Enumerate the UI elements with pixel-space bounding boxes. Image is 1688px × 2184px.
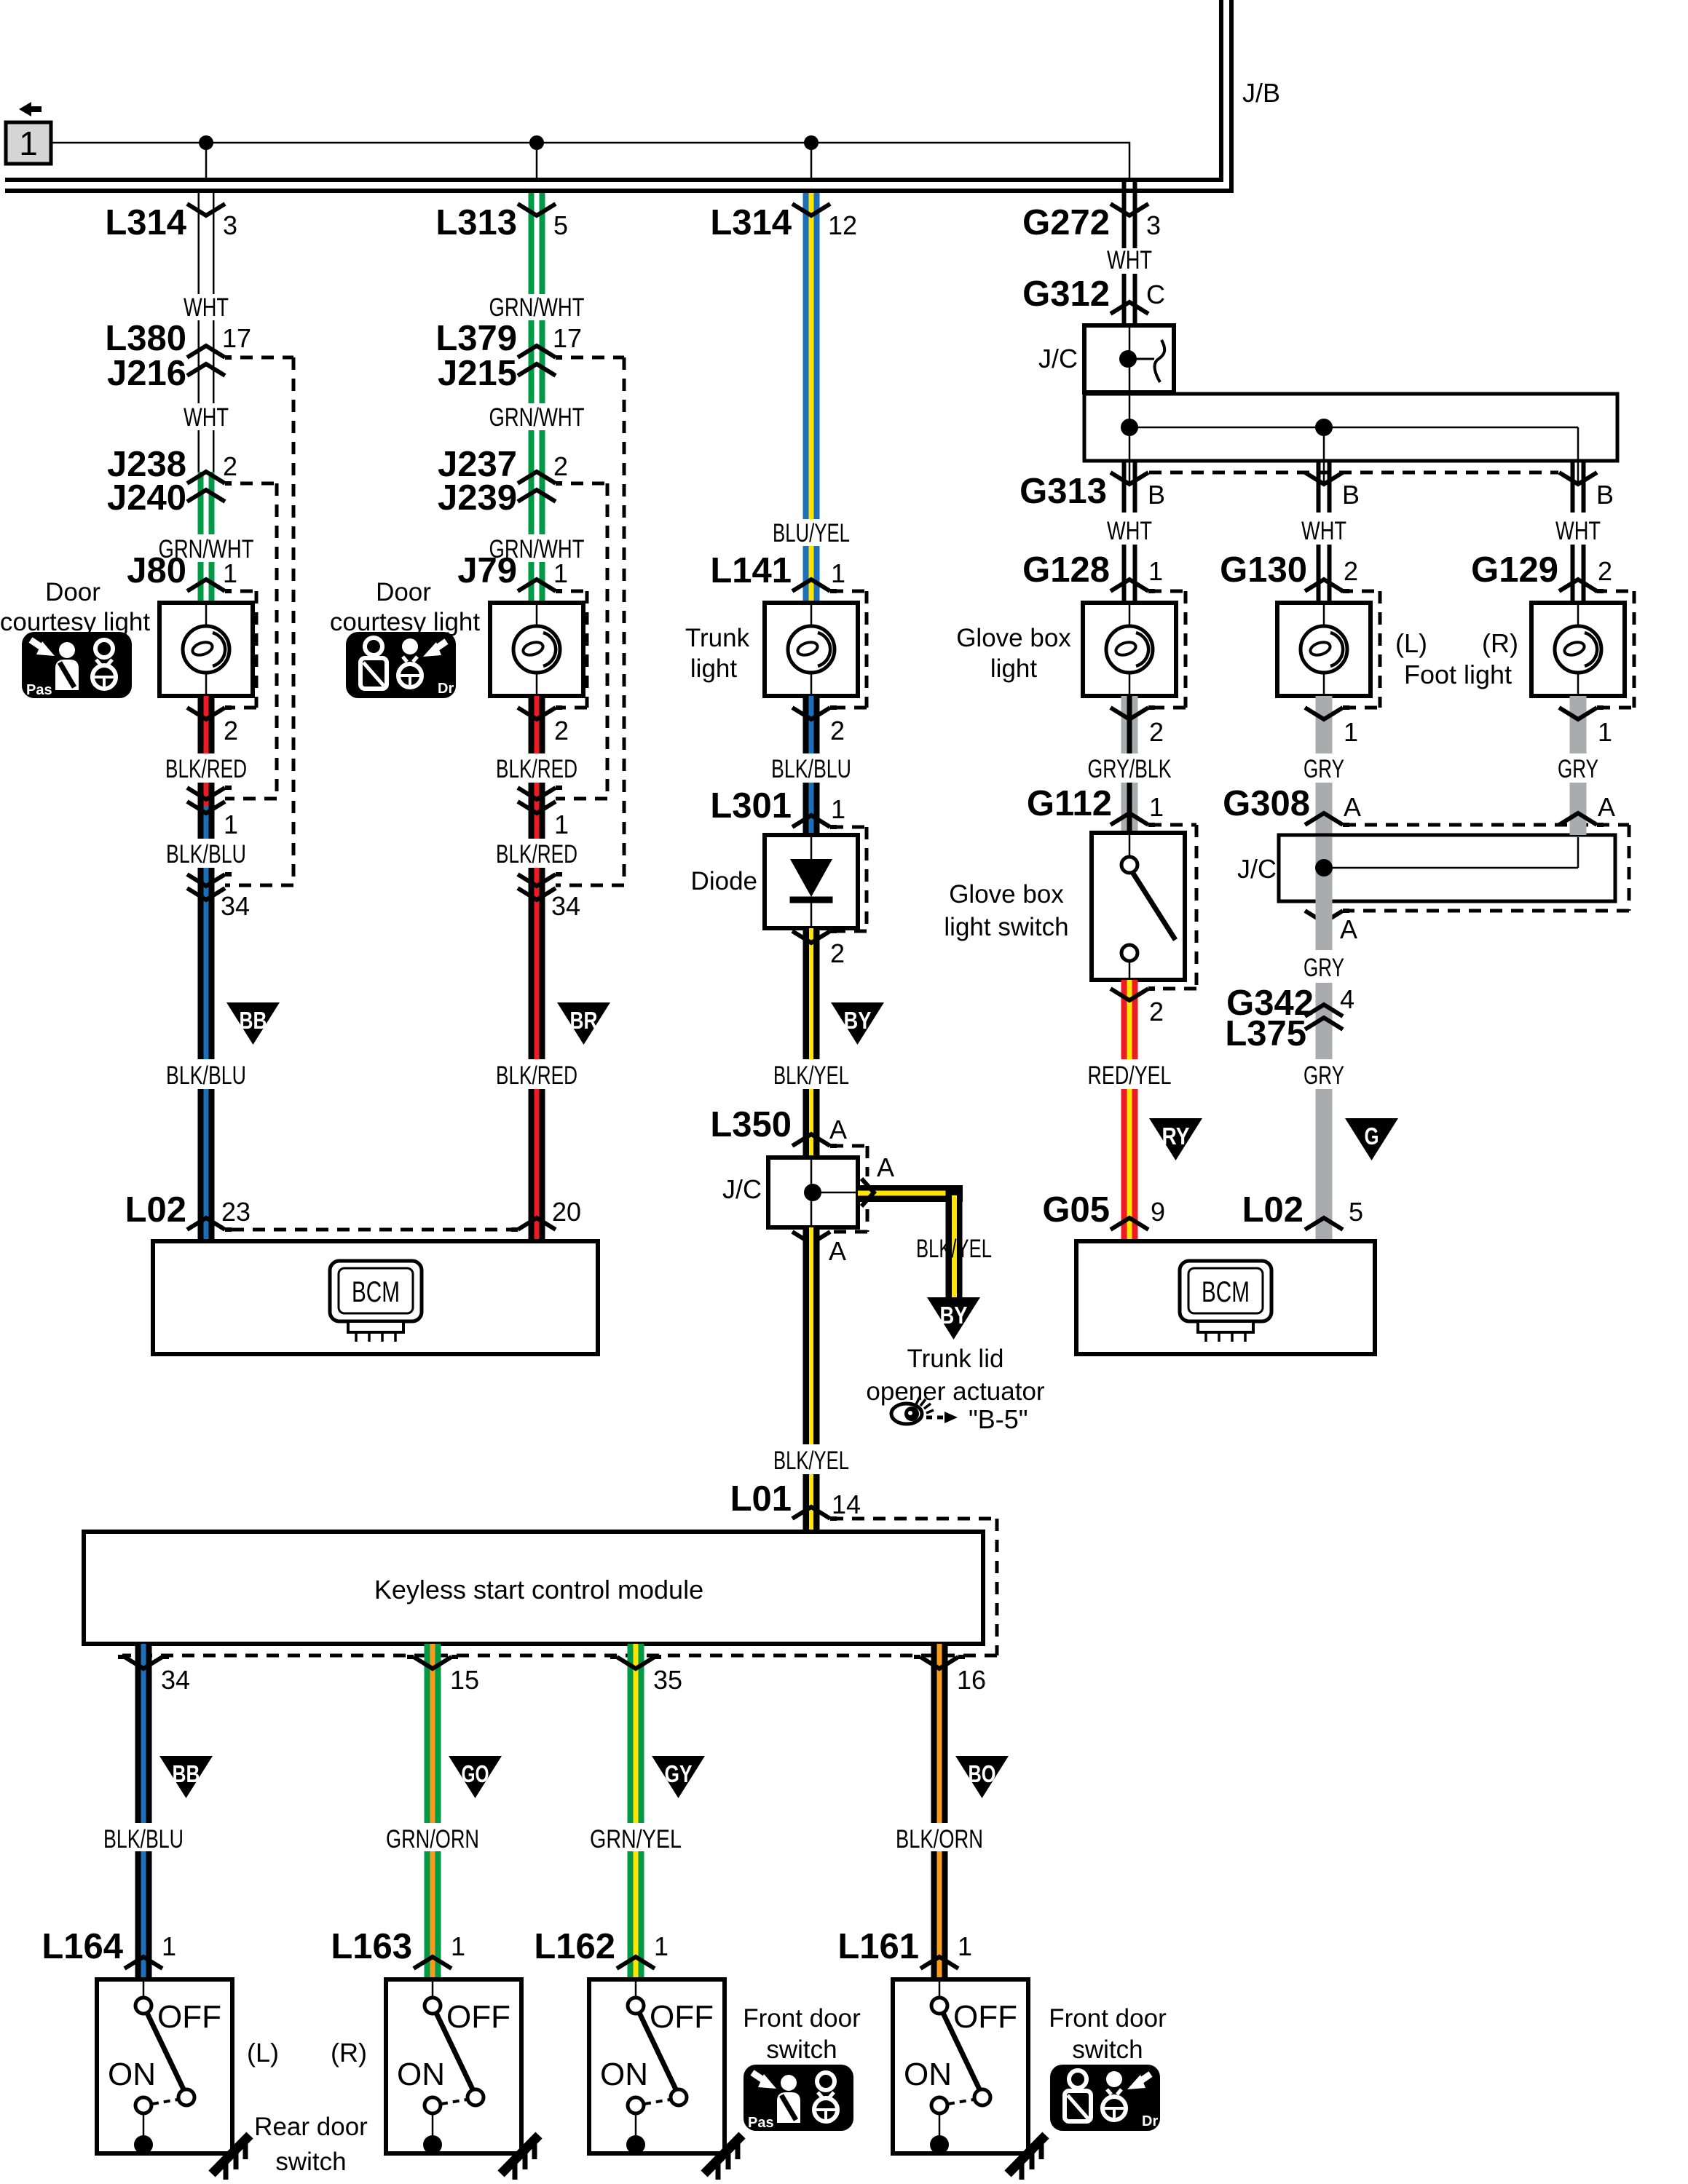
connector L301 pin1 bbox=[792, 815, 837, 827]
junction dot L313-5 tap bbox=[529, 135, 544, 150]
svg-text:G05: G05 bbox=[1042, 1190, 1110, 1230]
door switch L161 box bbox=[893, 1979, 1028, 2154]
tap line L314-3 bbox=[205, 143, 208, 179]
svg-text:34: 34 bbox=[551, 891, 580, 921]
svg-text:BB: BB bbox=[173, 1760, 200, 1787]
svg-text:OFF: OFF bbox=[446, 1999, 510, 2035]
dashed connector outline G128 bbox=[1149, 590, 1186, 593]
marker GY bbox=[652, 1756, 705, 1798]
svg-text:ON: ON bbox=[904, 2057, 952, 2092]
svg-text:1: 1 bbox=[19, 124, 38, 162]
wire WHT below G313 x1551 bbox=[1122, 461, 1127, 513]
tap line L313-5 bbox=[536, 143, 538, 179]
svg-text:Front door: Front door bbox=[743, 2004, 861, 2033]
connector G342/L375 pin4 bbox=[1305, 1005, 1343, 1016]
dashed connector outline J237-J239 col2 bbox=[571, 482, 607, 486]
svg-text:L161: L161 bbox=[837, 1927, 919, 1966]
svg-text:BCM: BCM bbox=[1202, 1276, 1250, 1308]
dashed outline G308 bbox=[1344, 823, 1629, 827]
svg-text:G: G bbox=[1365, 1123, 1379, 1150]
svg-text:1: 1 bbox=[162, 1931, 176, 1961]
eye reference symbol bbox=[891, 1404, 922, 1424]
wire BLK/BLU keyless out bbox=[135, 1644, 141, 1823]
svg-text:15: 15 bbox=[450, 1665, 479, 1695]
svg-text:BLK/YEL: BLK/YEL bbox=[916, 1235, 992, 1263]
dashed connector outline J79 bbox=[571, 590, 587, 593]
marker BB bbox=[159, 1756, 213, 1798]
connector G129 pin2 bbox=[1559, 579, 1604, 591]
svg-text:1: 1 bbox=[223, 558, 237, 588]
svg-text:WHT: WHT bbox=[1555, 517, 1601, 545]
svg-text:BLK/ORN: BLK/ORN bbox=[896, 1825, 983, 1853]
L350 wire through bbox=[811, 1160, 813, 1225]
connector A below L350 bbox=[792, 1232, 830, 1243]
door switch L162 box bbox=[589, 1979, 725, 2154]
svg-text:B: B bbox=[1342, 480, 1360, 510]
dashed link L02 connector bbox=[232, 1228, 511, 1232]
connector G313 pin B x2167 bbox=[1559, 472, 1597, 484]
svg-text:J/C: J/C bbox=[722, 1174, 762, 1204]
svg-text:C: C bbox=[1146, 280, 1165, 309]
wire WHT G272 bbox=[1122, 179, 1127, 248]
junction block G308 J/C box bbox=[1279, 835, 1615, 901]
wire WHT below G313 x2167 bbox=[1571, 461, 1575, 513]
lamp L141 trunk light bbox=[765, 603, 858, 696]
svg-text:1: 1 bbox=[831, 794, 845, 824]
svg-text:5: 5 bbox=[1349, 1197, 1363, 1227]
svg-text:BLK/RED: BLK/RED bbox=[165, 755, 247, 783]
dashed connector outline G130 bbox=[1341, 590, 1380, 593]
svg-text:2: 2 bbox=[1149, 717, 1164, 747]
svg-text:J79: J79 bbox=[457, 551, 517, 590]
wire GRY/BLK col4 bbox=[1121, 696, 1127, 753]
svg-text:L314: L314 bbox=[710, 203, 792, 242]
svg-text:BLK/BLU: BLK/BLU bbox=[771, 755, 851, 783]
G308 internal line bbox=[1324, 867, 1578, 869]
svg-text:1: 1 bbox=[553, 558, 568, 588]
wire GRN/YEL keyless out bbox=[628, 1644, 634, 1823]
connector J80 pin1 bbox=[187, 579, 232, 591]
svg-text:G128: G128 bbox=[1022, 550, 1110, 590]
svg-text:light: light bbox=[990, 654, 1037, 683]
diode L301 box bbox=[765, 835, 858, 928]
G312 jc squiggle bbox=[1128, 358, 1154, 360]
icon front door switch Pas bbox=[744, 2065, 853, 2131]
svg-text:BLK/BLU: BLK/BLU bbox=[166, 840, 246, 869]
G312 junction dot bbox=[1119, 350, 1137, 368]
marker G col5 bbox=[1345, 1118, 1398, 1160]
svg-text:WHT: WHT bbox=[1107, 517, 1152, 545]
svg-text:opener actuator: opener actuator bbox=[866, 1377, 1045, 1406]
svg-text:(R): (R) bbox=[1482, 628, 1518, 658]
marker BY trunk lid opener bbox=[927, 1297, 980, 1340]
svg-text:BY: BY bbox=[844, 1007, 872, 1034]
svg-text:G272: G272 bbox=[1022, 203, 1110, 242]
wire GRN/WHT col1 bbox=[198, 472, 204, 534]
connector pin2 below J79 bbox=[518, 708, 562, 719]
svg-text:switch: switch bbox=[766, 2035, 837, 2064]
marker RY col4 bbox=[1149, 1118, 1202, 1160]
svg-text:G313: G313 bbox=[1019, 472, 1107, 511]
svg-text:BLK/YEL: BLK/YEL bbox=[773, 1061, 849, 1090]
svg-text:L380: L380 bbox=[105, 319, 186, 358]
svg-text:(L): (L) bbox=[247, 2038, 279, 2068]
svg-text:Door: Door bbox=[45, 578, 100, 606]
svg-text:WHT: WHT bbox=[184, 293, 229, 322]
connector L02 pin5 bbox=[1305, 1218, 1343, 1230]
svg-text:2: 2 bbox=[1149, 997, 1164, 1026]
marker BY col3 bbox=[831, 1002, 884, 1045]
keyless start control module box bbox=[84, 1532, 983, 1644]
connector keyless pin 34 bbox=[118, 1657, 169, 1669]
wire WHT col1 bbox=[198, 193, 200, 294]
svg-text:L379: L379 bbox=[435, 319, 517, 358]
svg-text:RED/YEL: RED/YEL bbox=[1088, 1061, 1172, 1090]
tap line L314-12 bbox=[811, 143, 813, 179]
svg-text:light switch: light switch bbox=[944, 913, 1068, 941]
svg-text:L350: L350 bbox=[710, 1105, 792, 1144]
connector J79 pin1 bbox=[518, 579, 562, 591]
svg-text:L375: L375 bbox=[1225, 1014, 1306, 1053]
wire WHT below G313 x1818 bbox=[1317, 461, 1321, 513]
wire GRN/WHT col2 bbox=[529, 193, 535, 294]
connector keyless pin 35 bbox=[610, 1657, 661, 1669]
G308 junction dot bbox=[1315, 859, 1333, 877]
svg-text:34: 34 bbox=[161, 1665, 190, 1695]
svg-text:23: 23 bbox=[221, 1197, 251, 1227]
svg-text:GRY: GRY bbox=[1558, 755, 1598, 783]
svg-text:GO: GO bbox=[462, 1760, 489, 1787]
svg-text:12: 12 bbox=[828, 210, 857, 240]
connector L314-3 bbox=[187, 204, 225, 215]
connector G05 pin9 bbox=[1111, 1218, 1148, 1230]
svg-text:GRY: GRY bbox=[1304, 954, 1344, 982]
svg-text:BLK/RED: BLK/RED bbox=[496, 1061, 577, 1090]
dashed connector outline L301 bbox=[831, 826, 867, 829]
connector L01 pin14 bbox=[792, 1507, 837, 1519]
svg-text:G312: G312 bbox=[1022, 274, 1110, 314]
wire BLK/BLU col1 bbox=[198, 806, 204, 839]
svg-text:Trunk: Trunk bbox=[685, 624, 750, 652]
lamp J79 door courtesy light bbox=[490, 603, 583, 696]
G313 pin line x2167 bbox=[1577, 461, 1579, 483]
svg-text:1: 1 bbox=[451, 1931, 465, 1961]
svg-text:B: B bbox=[1148, 480, 1165, 510]
svg-text:B: B bbox=[1596, 480, 1614, 510]
svg-text:BLK/RED: BLK/RED bbox=[496, 840, 577, 869]
svg-text:GRY: GRY bbox=[1304, 1061, 1344, 1090]
svg-text:BLK/BLU: BLK/BLU bbox=[103, 1825, 184, 1853]
J/B bus inner line bbox=[5, 0, 1231, 191]
svg-text:Glove box: Glove box bbox=[956, 624, 1071, 652]
BCM left icon bbox=[330, 1261, 422, 1342]
connector G313 pin B x1551 bbox=[1111, 472, 1148, 484]
lamp G130 foot light L bbox=[1277, 603, 1370, 696]
svg-text:G129: G129 bbox=[1471, 550, 1558, 590]
connector G312-C bbox=[1111, 302, 1148, 314]
connector G128 pin1 bbox=[1111, 579, 1155, 591]
svg-text:Dr: Dr bbox=[1142, 2113, 1158, 2129]
lamp J80 door courtesy light bbox=[159, 603, 253, 696]
ground at L163 bbox=[501, 2135, 539, 2180]
svg-text:ON: ON bbox=[397, 2057, 445, 2092]
svg-text:switch: switch bbox=[1072, 2035, 1143, 2064]
wire BLK/BLU col3 bbox=[803, 696, 809, 753]
svg-text:2: 2 bbox=[830, 938, 845, 968]
svg-text:4: 4 bbox=[1340, 984, 1354, 1014]
wire GRN/ORN keyless out bbox=[425, 1644, 430, 1823]
connector G308 pin A right bbox=[1559, 813, 1604, 825]
dashed outline keyless L01 bbox=[831, 1517, 997, 1521]
node 1 (page link box) bbox=[6, 122, 51, 164]
inline connector pin1 col2 bbox=[518, 788, 562, 799]
svg-text:RY: RY bbox=[1162, 1123, 1190, 1150]
svg-text:1: 1 bbox=[958, 1931, 972, 1961]
svg-text:Foot light: Foot light bbox=[1404, 660, 1512, 689]
svg-text:2: 2 bbox=[224, 716, 238, 745]
marker BO bbox=[955, 1756, 1009, 1798]
wire BLK/YEL branch vertical bbox=[946, 1185, 963, 1297]
svg-text:BR: BR bbox=[570, 1007, 598, 1034]
svg-text:A: A bbox=[829, 1236, 846, 1266]
connector pin34 col1 bbox=[187, 874, 232, 886]
svg-text:GRN/YEL: GRN/YEL bbox=[590, 1825, 682, 1853]
junction block G313 bus box bbox=[1084, 394, 1617, 461]
connector J238/J240 pin2 bbox=[187, 472, 232, 483]
icon front door switch Dr bbox=[1050, 2065, 1160, 2131]
junction dot L314-3 tap bbox=[199, 135, 213, 150]
L350 junction dot bbox=[804, 1184, 821, 1201]
connector L350 pin A bbox=[792, 1134, 837, 1146]
connector G308 pin A left bbox=[1305, 813, 1349, 825]
svg-text:Glove box: Glove box bbox=[949, 880, 1064, 909]
svg-text:17: 17 bbox=[222, 323, 251, 353]
door switch L164 box bbox=[97, 1979, 232, 2154]
connector pin2 below L301 bbox=[792, 931, 837, 943]
svg-text:A: A bbox=[1344, 792, 1361, 822]
svg-text:J/B: J/B bbox=[1242, 78, 1280, 108]
L350 branch tap line bbox=[811, 1192, 858, 1194]
svg-text:OFF: OFF bbox=[157, 1999, 221, 2035]
dashed connector outline J238-J240 col1 bbox=[240, 482, 277, 486]
svg-text:2: 2 bbox=[554, 716, 569, 745]
svg-text:L164: L164 bbox=[42, 1927, 123, 1966]
svg-text:GRN/WHT: GRN/WHT bbox=[489, 403, 585, 432]
connector pin2 below G112 bbox=[1111, 989, 1155, 1000]
ground at L162 bbox=[704, 2135, 742, 2180]
dashed outline L350 bbox=[831, 1144, 865, 1148]
svg-text:G112: G112 bbox=[1027, 784, 1112, 823]
svg-text:J/C: J/C bbox=[1038, 344, 1078, 373]
svg-text:A: A bbox=[877, 1152, 894, 1182]
svg-text:J216: J216 bbox=[107, 354, 186, 393]
svg-text:5: 5 bbox=[553, 210, 568, 240]
dashed connector outline L141 bbox=[831, 590, 867, 593]
connector pin34 col2 bbox=[518, 874, 562, 886]
svg-text:J239: J239 bbox=[438, 478, 517, 518]
dashed connector outline J80 bbox=[240, 590, 256, 593]
dashed connector outline L379-J215 col2 bbox=[571, 356, 624, 360]
G313 internal line bbox=[1129, 394, 1131, 461]
svg-text:ON: ON bbox=[108, 2057, 156, 2092]
svg-text:GRN/WHT: GRN/WHT bbox=[489, 293, 585, 322]
svg-text:J240: J240 bbox=[107, 478, 186, 518]
G313 internal dot 1 bbox=[1121, 419, 1138, 436]
lamp G129 foot light R bbox=[1531, 603, 1625, 696]
svg-text:Pas: Pas bbox=[748, 2115, 774, 2131]
svg-text:3: 3 bbox=[1146, 210, 1161, 240]
wire from node 1 to J/B drop bbox=[52, 143, 1129, 179]
svg-text:WHT: WHT bbox=[1107, 246, 1152, 274]
wire BLK/RED col1 bbox=[198, 696, 204, 753]
svg-text:L314: L314 bbox=[105, 203, 186, 242]
svg-text:BO: BO bbox=[969, 1760, 996, 1787]
wire BLU/YEL col3 bbox=[803, 193, 809, 519]
marker GO bbox=[449, 1756, 502, 1798]
svg-text:14: 14 bbox=[832, 1489, 861, 1519]
svg-text:OFF: OFF bbox=[953, 1999, 1017, 2035]
svg-text:A: A bbox=[1340, 914, 1357, 944]
svg-text:A: A bbox=[1598, 792, 1615, 822]
junction block G312 J/C box bbox=[1084, 325, 1174, 392]
wire BLK/YEL col3 lower bbox=[803, 1227, 810, 1444]
connector L02 pin20 bbox=[511, 1218, 556, 1230]
svg-text:1: 1 bbox=[554, 810, 569, 839]
svg-text:J215: J215 bbox=[438, 354, 517, 393]
junction dot L314-12 tap bbox=[804, 135, 819, 150]
G313 internal dot 2 bbox=[1315, 419, 1333, 436]
connector G112 pin1 bbox=[1111, 813, 1155, 825]
svg-text:Rear door: Rear door bbox=[254, 2113, 368, 2141]
svg-text:L141: L141 bbox=[710, 551, 792, 590]
svg-text:WHT: WHT bbox=[184, 403, 229, 432]
dashed connector outline G129 bbox=[1595, 590, 1634, 593]
svg-text:G130: G130 bbox=[1220, 550, 1307, 590]
svg-text:L02: L02 bbox=[125, 1190, 186, 1230]
connector 1 link arrow bbox=[29, 106, 42, 112]
marker BR col2 bbox=[557, 1002, 610, 1045]
connector L379/J215 pin17 bbox=[518, 346, 562, 357]
svg-text:BY: BY bbox=[940, 1302, 968, 1329]
connector G313 pin B x1818 bbox=[1305, 472, 1343, 484]
connector L164 pin1 bbox=[125, 1957, 162, 1969]
lamp G128 glove box light bbox=[1083, 603, 1176, 696]
wire GRY col5 lower bbox=[1316, 901, 1333, 950]
svg-text:16: 16 bbox=[957, 1665, 986, 1695]
svg-text:J/C: J/C bbox=[1237, 854, 1277, 884]
connector G272-3 bbox=[1111, 204, 1148, 215]
svg-text:Trunk lid: Trunk lid bbox=[907, 1345, 1004, 1373]
svg-text:L163: L163 bbox=[331, 1927, 412, 1966]
svg-text:(L): (L) bbox=[1395, 628, 1427, 658]
svg-text:2: 2 bbox=[223, 451, 237, 481]
G312 wire through bbox=[1129, 328, 1131, 392]
svg-text:BLK/RED: BLK/RED bbox=[496, 755, 577, 783]
svg-text:1: 1 bbox=[654, 1931, 669, 1961]
door switch L163 box bbox=[386, 1979, 521, 2154]
glove box light switch G112 box bbox=[1092, 833, 1185, 980]
svg-text:Keyless start control module: Keyless start control module bbox=[374, 1575, 703, 1605]
dashed link G313 connector bbox=[1149, 471, 1558, 475]
svg-text:1: 1 bbox=[1598, 717, 1612, 747]
wire BLK/ORN keyless out bbox=[931, 1644, 937, 1823]
wire GRY col5 upper bbox=[1316, 696, 1333, 753]
dashed connector outline L380-J216 col1 bbox=[240, 356, 293, 360]
svg-text:GRN/ORN: GRN/ORN bbox=[386, 1825, 479, 1853]
svg-text:BLK/BLU: BLK/BLU bbox=[166, 1061, 246, 1090]
svg-text:BLK/YEL: BLK/YEL bbox=[773, 1447, 849, 1475]
svg-text:GRY: GRY bbox=[1304, 755, 1344, 783]
wire RED/YEL col4 bbox=[1121, 980, 1127, 1059]
connector J237/J239 pin2 bbox=[518, 472, 562, 483]
svg-text:2: 2 bbox=[830, 716, 845, 745]
svg-text:Diode: Diode bbox=[691, 867, 757, 895]
connector keyless pin 16 bbox=[914, 1657, 965, 1669]
svg-text:34: 34 bbox=[221, 891, 250, 921]
svg-text:ON: ON bbox=[600, 2057, 648, 2092]
svg-text:2: 2 bbox=[553, 451, 568, 481]
svg-text:1: 1 bbox=[1344, 717, 1358, 747]
svg-text:G308: G308 bbox=[1223, 784, 1310, 823]
svg-text:1: 1 bbox=[1148, 556, 1163, 586]
wire BLK/YEL branch horizontal bbox=[858, 1185, 963, 1202]
connector G130 pin2 bbox=[1305, 579, 1349, 591]
G313 pin line x1551 bbox=[1129, 461, 1131, 483]
svg-text:L01: L01 bbox=[730, 1479, 792, 1519]
svg-text:BB: BB bbox=[240, 1007, 267, 1034]
svg-text:OFF: OFF bbox=[650, 1999, 714, 2035]
svg-text:20: 20 bbox=[552, 1197, 581, 1227]
svg-text:1: 1 bbox=[831, 558, 845, 588]
svg-text:GY: GY bbox=[665, 1760, 693, 1787]
svg-text:2: 2 bbox=[1344, 556, 1358, 586]
BCM right icon bbox=[1180, 1261, 1271, 1342]
connector L314-12 bbox=[792, 204, 830, 215]
svg-text:A: A bbox=[829, 1115, 847, 1144]
svg-text:L162: L162 bbox=[534, 1927, 615, 1966]
BCM right box bbox=[1076, 1241, 1375, 1354]
connector pin A below G308 bbox=[1305, 911, 1349, 922]
svg-text:(R): (R) bbox=[331, 2038, 367, 2068]
connector L161 pin1 bbox=[920, 1957, 958, 1969]
connector L380/J216 pin17 bbox=[187, 346, 232, 357]
svg-text:3: 3 bbox=[223, 210, 237, 240]
svg-text:2: 2 bbox=[1598, 556, 1612, 586]
connector pin2 below G128 bbox=[1111, 708, 1155, 719]
connector L313-5 bbox=[518, 204, 556, 215]
svg-text:Door: Door bbox=[376, 578, 431, 606]
svg-text:17: 17 bbox=[553, 323, 582, 353]
connector A on branch bbox=[861, 1179, 874, 1206]
svg-text:1: 1 bbox=[224, 810, 238, 839]
connector keyless pin 15 bbox=[407, 1657, 458, 1669]
BCM left box bbox=[153, 1241, 598, 1354]
svg-text:light: light bbox=[690, 654, 737, 683]
J/B bus outer line bbox=[5, 0, 1221, 180]
connector L162 pin1 bbox=[617, 1957, 655, 1969]
svg-text:GRY/BLK: GRY/BLK bbox=[1088, 755, 1172, 783]
G112 switch contacts bbox=[1121, 857, 1137, 873]
connector L163 pin1 bbox=[414, 1957, 451, 1969]
svg-text:Front door: Front door bbox=[1049, 2004, 1167, 2033]
svg-text:J80: J80 bbox=[127, 551, 186, 590]
svg-text:switch: switch bbox=[275, 2148, 346, 2176]
svg-text:35: 35 bbox=[653, 1665, 682, 1695]
junction block L350 J/C box bbox=[768, 1158, 858, 1227]
svg-text:WHT: WHT bbox=[1301, 517, 1346, 545]
svg-text:"B-5": "B-5" bbox=[969, 1404, 1028, 1434]
G308 grey wire inside box bbox=[1316, 837, 1333, 901]
